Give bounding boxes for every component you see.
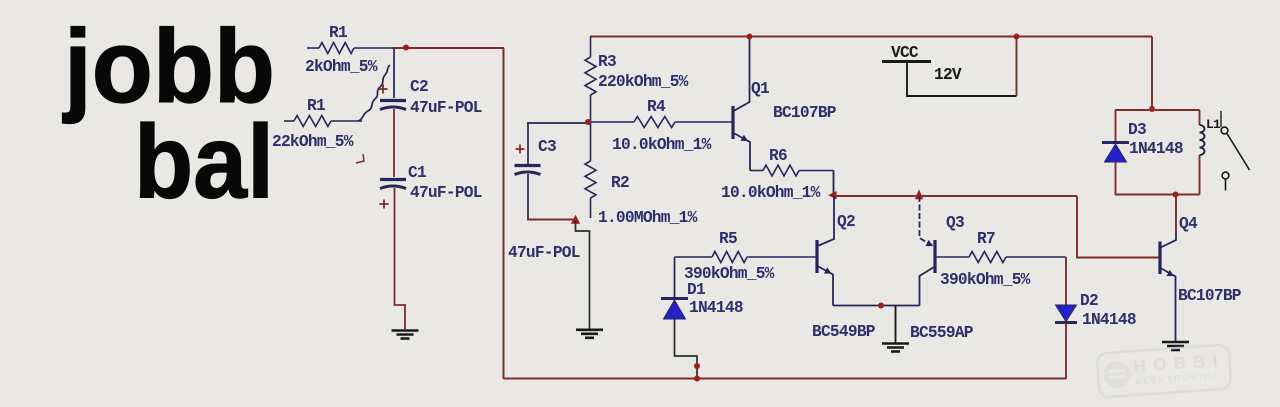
svg-text:C1: C1 xyxy=(408,164,427,182)
wire Q2-Q3 emitter join xyxy=(833,305,920,307)
svg-text:1N4148: 1N4148 xyxy=(1082,311,1136,329)
svg-text:R6: R6 xyxy=(769,147,787,165)
node emitter join dot xyxy=(878,303,884,309)
power VCC bar xyxy=(882,60,931,63)
resistor R2 body xyxy=(585,161,596,198)
resistor R7 body xyxy=(969,252,1006,263)
resistor R4 leads xyxy=(591,121,634,123)
svg-text:R1: R1 xyxy=(329,24,348,42)
resistor R2 bottom lead xyxy=(590,198,592,218)
wire left vertical rail xyxy=(503,48,505,379)
svg-text:10.0kOhm_1%: 10.0kOhm_1% xyxy=(721,184,821,202)
transistor Q4 bar xyxy=(1158,242,1161,275)
ground stem (Q2/Q3) xyxy=(895,306,897,344)
transistor Q3 emitter arrow xyxy=(926,240,934,246)
wire C1 to ground xyxy=(395,188,406,329)
transistor Q3 emitter xyxy=(920,196,935,247)
transistor Q3 collector xyxy=(920,267,935,306)
capacitor C1 plus xyxy=(380,203,389,205)
capacitor C2 plus xyxy=(379,88,388,90)
capacitor C3 top lead xyxy=(527,123,529,164)
svg-text:BC559AP: BC559AP xyxy=(910,324,974,342)
svg-text:1.00MOhm_1%: 1.00MOhm_1% xyxy=(598,209,698,227)
svg-text:47uF-POL: 47uF-POL xyxy=(508,244,580,262)
transistor Q4 collector diag xyxy=(1161,232,1177,248)
diode D3 body xyxy=(1105,144,1127,162)
svg-text:R2: R2 xyxy=(611,174,629,192)
capacitor C2 body xyxy=(380,99,406,102)
svg-text:Q1: Q1 xyxy=(751,80,770,98)
transistor Q1 bar xyxy=(731,106,734,139)
resistor R4 body xyxy=(634,117,675,128)
resistor R1 (2kOhm) body xyxy=(319,43,354,54)
node relay bottom dot xyxy=(1173,192,1179,198)
resistor R1 (22kOhm) leads xyxy=(284,120,294,122)
diode D3 top lead xyxy=(1115,110,1117,141)
watermark logo xyxy=(1097,344,1232,397)
svg-text:12V: 12V xyxy=(934,66,962,84)
wire top-left rail xyxy=(392,47,504,49)
resistor R1 (22kOhm) body xyxy=(294,116,331,127)
svg-text:10.0kOhm_1%: 10.0kOhm_1% xyxy=(612,136,712,154)
wire rail C down to Q4 base xyxy=(1077,196,1159,258)
wire bottom bus xyxy=(504,378,1067,380)
diode D2 bottom lead xyxy=(1065,323,1067,379)
svg-text:47uF-POL: 47uF-POL xyxy=(410,99,482,117)
svg-text:VCC: VCC xyxy=(891,44,919,62)
svg-text:R3: R3 xyxy=(598,53,616,71)
diode D1 top corner / R5 left lead xyxy=(675,256,713,258)
node Q3 emitter red arrow xyxy=(915,189,923,199)
relay box top wire xyxy=(1115,109,1200,111)
resistor R2 top lead xyxy=(590,123,592,161)
svg-text:Q4: Q4 xyxy=(1179,215,1198,233)
svg-text:C2: C2 xyxy=(410,78,428,96)
diode D2 cathode bar xyxy=(1055,321,1077,324)
svg-text:Q2: Q2 xyxy=(837,213,855,231)
node relay top dot xyxy=(1149,106,1155,112)
ground (Q4) xyxy=(1162,341,1189,344)
node B junction arrow xyxy=(571,215,580,224)
inductor L1 coil xyxy=(1200,125,1205,155)
svg-text:D2: D2 xyxy=(1080,292,1098,310)
transistor Q1 emitter arrow xyxy=(741,135,749,141)
resistor R6 left lead xyxy=(750,170,763,172)
wire C3 node to R junction xyxy=(527,122,590,124)
resistor R7 right lead xyxy=(1006,256,1066,258)
svg-text:1N4148: 1N4148 xyxy=(689,299,743,317)
svg-text:C3: C3 xyxy=(538,138,556,156)
svg-text:Q3: Q3 xyxy=(946,214,964,232)
resistor R1 (2kOhm) leads xyxy=(307,47,319,49)
transistor Q1 collector xyxy=(734,37,750,111)
wire R6 down to rail xyxy=(833,171,835,197)
svg-text:2kOhm_5%: 2kOhm_5% xyxy=(305,58,378,76)
wire L1 label stem xyxy=(1220,111,1222,127)
diode D1 cathode bar xyxy=(661,297,688,300)
relay box bottom wire xyxy=(1115,194,1200,196)
resistor R3 bottom lead xyxy=(590,95,592,122)
svg-text:47uF-POL: 47uF-POL xyxy=(410,184,482,202)
switch bottom contact xyxy=(1222,172,1229,179)
svg-text:BC107BP: BC107BP xyxy=(773,104,837,122)
transistor Q2 collector xyxy=(818,196,835,246)
node A junction dot xyxy=(403,45,409,51)
capacitor C2 top lead xyxy=(393,48,395,98)
diode D1 top lead xyxy=(674,257,676,298)
svg-text:R4: R4 xyxy=(647,98,666,116)
transistor Q3 base wire xyxy=(936,256,969,258)
resistor R5 right lead / Q2 base wire xyxy=(747,256,816,258)
switch bottom stem xyxy=(1225,179,1227,191)
diode D1 body xyxy=(664,300,686,319)
transistor Q4 emitter xyxy=(1161,268,1176,341)
stray mark xyxy=(356,154,364,163)
capacitor C1 body xyxy=(380,178,406,181)
wire node B step to ground xyxy=(576,221,590,329)
diode D1 bottom wire xyxy=(675,319,698,378)
ground (C1) xyxy=(392,329,419,332)
svg-text:BC107BP: BC107BP xyxy=(1178,287,1242,305)
resistor R3 top lead xyxy=(590,37,592,58)
svg-text:L1: L1 xyxy=(1206,117,1221,132)
wire R7 down to D2 xyxy=(1065,257,1067,305)
switch blade xyxy=(1227,134,1250,171)
transistor Q1 emitter xyxy=(734,133,751,171)
svg-text:22kOhm_5%: 22kOhm_5% xyxy=(272,133,354,151)
inductor L1 top lead xyxy=(1199,110,1201,125)
power VCC stem xyxy=(907,63,1017,96)
resistor R6 body xyxy=(763,165,799,176)
svg-text:390kOhm_5%: 390kOhm_5% xyxy=(940,271,1031,289)
svg-text:bal: bal xyxy=(134,105,274,221)
node Q1 collector dot xyxy=(747,34,753,40)
transistor Q2 emitter xyxy=(818,266,834,306)
resistor R6 right lead xyxy=(799,170,834,172)
svg-text:R1: R1 xyxy=(307,97,326,115)
svg-text:D3: D3 xyxy=(1128,121,1146,139)
switch top contact xyxy=(1221,127,1228,134)
wire VCC to rail xyxy=(1016,37,1018,97)
wire rail to relay xyxy=(1151,37,1153,111)
ground (R2/C3) xyxy=(576,328,603,331)
wire top rail xyxy=(590,36,1152,38)
ground (Q2/Q3) xyxy=(882,342,909,345)
node VCC rail dot xyxy=(1014,34,1020,40)
svg-text:BC549BP: BC549BP xyxy=(812,323,876,341)
svg-text:D1: D1 xyxy=(687,281,706,299)
capacitor C3 body xyxy=(515,164,541,167)
wire rail C xyxy=(834,195,1078,197)
svg-text:220kOhm_5%: 220kOhm_5% xyxy=(598,73,689,91)
inductor L1 bottom lead xyxy=(1199,155,1201,195)
capacitor C3 plus xyxy=(516,148,525,150)
node rail C arrow xyxy=(828,191,836,199)
svg-text:R5: R5 xyxy=(719,230,737,248)
transistor Q2 emitter arrow xyxy=(824,267,832,273)
wire squiggle from R1 to node xyxy=(358,65,390,121)
transistor Q2 bar xyxy=(815,240,818,273)
transistor Q4 collector wire xyxy=(1175,195,1177,233)
resistor R3 body xyxy=(585,57,596,95)
wire C2 to C1 xyxy=(393,109,395,177)
svg-text:R7: R7 xyxy=(977,230,995,248)
diode D2 body xyxy=(1056,305,1077,322)
resistor R5 body xyxy=(712,252,747,263)
capacitor C3 bottom lead xyxy=(527,174,529,219)
transistor Q3 bar xyxy=(933,240,936,273)
node D1 bus dot xyxy=(694,376,700,382)
svg-text:1N4148: 1N4148 xyxy=(1129,140,1183,158)
node D1 dot 1 xyxy=(694,363,700,369)
diode D3 cathode bar xyxy=(1102,141,1129,144)
transistor Q4 emitter arrow xyxy=(1167,270,1175,276)
node C junction dot xyxy=(585,119,591,125)
wire C3 to R2 node xyxy=(527,219,576,221)
diode D3 bottom lead xyxy=(1115,162,1117,195)
